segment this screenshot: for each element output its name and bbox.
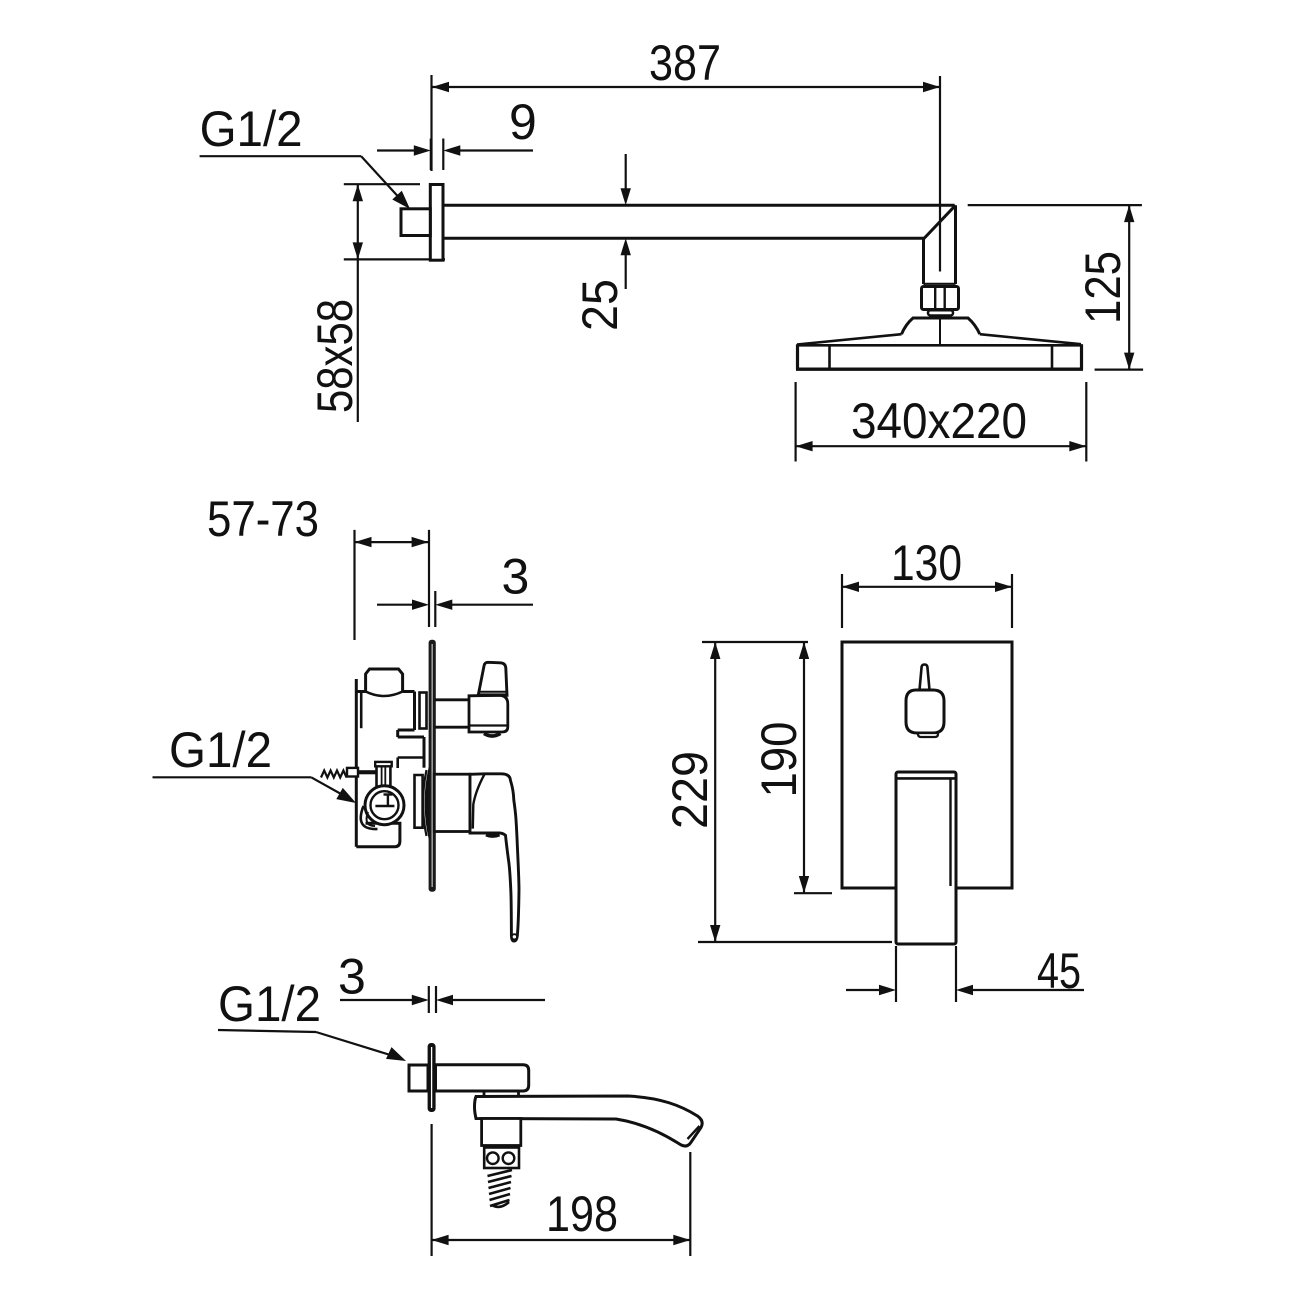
dimension 130 line	[842, 586, 1012, 588]
svg-text:3: 3	[338, 949, 366, 1005]
center line through bell	[939, 319, 941, 346]
shower head body	[797, 334, 902, 344]
svg-text:G1/2: G1/2	[200, 101, 303, 157]
dimension 57-73 line	[355, 541, 429, 543]
dimension 58x58 extension lines	[344, 183, 420, 185]
dimension 229 line	[714, 642, 716, 942]
hook arc under circle	[361, 806, 378, 829]
svg-text:130: 130	[891, 535, 962, 591]
dimension 9 arrows	[377, 149, 424, 151]
svg-text:G1/2: G1/2	[169, 722, 272, 778]
svg-text:198: 198	[546, 1186, 618, 1242]
svg-text:125: 125	[1075, 251, 1131, 324]
spout G1/2 nipple	[409, 1065, 428, 1091]
dimension 340x220 extension lines	[794, 382, 796, 462]
svg-text:3: 3	[502, 549, 530, 605]
svg-text:340x220: 340x220	[851, 393, 1027, 449]
extension line 57-73 left	[353, 530, 355, 640]
svg-text:9: 9	[509, 94, 537, 150]
shower arm elbow miter	[924, 205, 956, 239]
mixer escutcheon side view	[434, 774, 470, 831]
extension line 57-73 right / plate face	[428, 530, 430, 627]
shower arm horizontal tube	[443, 204, 955, 207]
spout coupling nut with rollers	[484, 1148, 519, 1169]
diverter gasket behind plate	[420, 693, 427, 729]
svg-text:G1/2: G1/2	[218, 976, 321, 1032]
mixer wall plate side view	[429, 640, 436, 892]
arm elbow end cap	[924, 283, 956, 286]
svg-text:387: 387	[649, 35, 721, 91]
dimension 229 extension lines	[702, 641, 808, 643]
mixer cartridge housing	[398, 736, 424, 739]
diverter stem through plate	[435, 698, 469, 701]
dimension 3 middle ticks and arrows	[434, 591, 436, 627]
dimension 125 line	[1128, 205, 1130, 370]
dimension line 387	[432, 86, 940, 88]
diverter cap side view	[469, 695, 508, 732]
mixer body main block	[355, 679, 358, 847]
dimension 9 ticks	[430, 139, 432, 171]
dimension 130 extension lines	[841, 574, 843, 628]
threaded tail	[488, 1170, 513, 1206]
leader line G1/2 bottom	[218, 1030, 316, 1032]
svg-text:25: 25	[572, 279, 628, 331]
spout mouth line	[688, 1126, 700, 1139]
shower head bell cone	[902, 318, 980, 334]
dimension 340x220 line	[796, 445, 1087, 447]
dimension 3 bottom ticks and arrows	[428, 986, 430, 1013]
spout wall plate (dark)	[428, 1043, 436, 1112]
thread mark inside circle	[375, 805, 394, 807]
connector nut	[922, 287, 959, 310]
hose barb fitting	[321, 771, 347, 778]
G1/2 nipple square of shower arm	[401, 209, 430, 236]
mixer front plate	[842, 642, 1012, 888]
dimension 198 extension lines	[431, 1124, 433, 1256]
dimension 198 line	[432, 1239, 691, 1241]
side inlet tube above circle	[377, 766, 391, 786]
diverter knob front view	[920, 665, 930, 691]
ball collar	[928, 310, 953, 315]
mixer handle bar front view	[896, 772, 956, 944]
spout arm	[475, 1096, 703, 1146]
wall flange of shower arm	[430, 185, 443, 261]
mixer body top port stub	[366, 669, 403, 692]
dimension 190 line	[803, 642, 805, 893]
handle facet line	[473, 774, 485, 828]
diverter knob side view	[478, 662, 507, 695]
dimension 45 arrows	[846, 989, 890, 991]
leader tail 58x58	[357, 259, 359, 422]
leader line G1/2 top	[200, 155, 362, 157]
mixer lever handle side view	[470, 774, 519, 941]
extension line left of 387 (wall face)	[430, 75, 432, 171]
svg-text:58x58: 58x58	[307, 299, 363, 413]
dimension 125 extension lines	[968, 204, 1142, 206]
svg-text:229: 229	[662, 751, 718, 829]
gasket bell behind plate (dark)	[425, 767, 430, 840]
svg-text:57-73: 57-73	[207, 491, 319, 547]
svg-text:190: 190	[751, 722, 807, 798]
G1/2 port circle	[365, 786, 404, 825]
dimension 25 arrows	[625, 154, 627, 199]
spout mounting block	[436, 1065, 529, 1091]
leader line G1/2 middle	[153, 776, 312, 778]
mixer bottom outlet block	[356, 823, 400, 846]
dimension 58x58 line	[357, 184, 359, 259]
spout neck	[483, 1091, 486, 1097]
dimension 45 extension lines	[895, 946, 897, 1002]
cartridge sleeve behind plate	[415, 775, 423, 828]
extension/center line right of 387 (head center)	[939, 76, 941, 272]
spout valve block	[482, 1119, 521, 1146]
